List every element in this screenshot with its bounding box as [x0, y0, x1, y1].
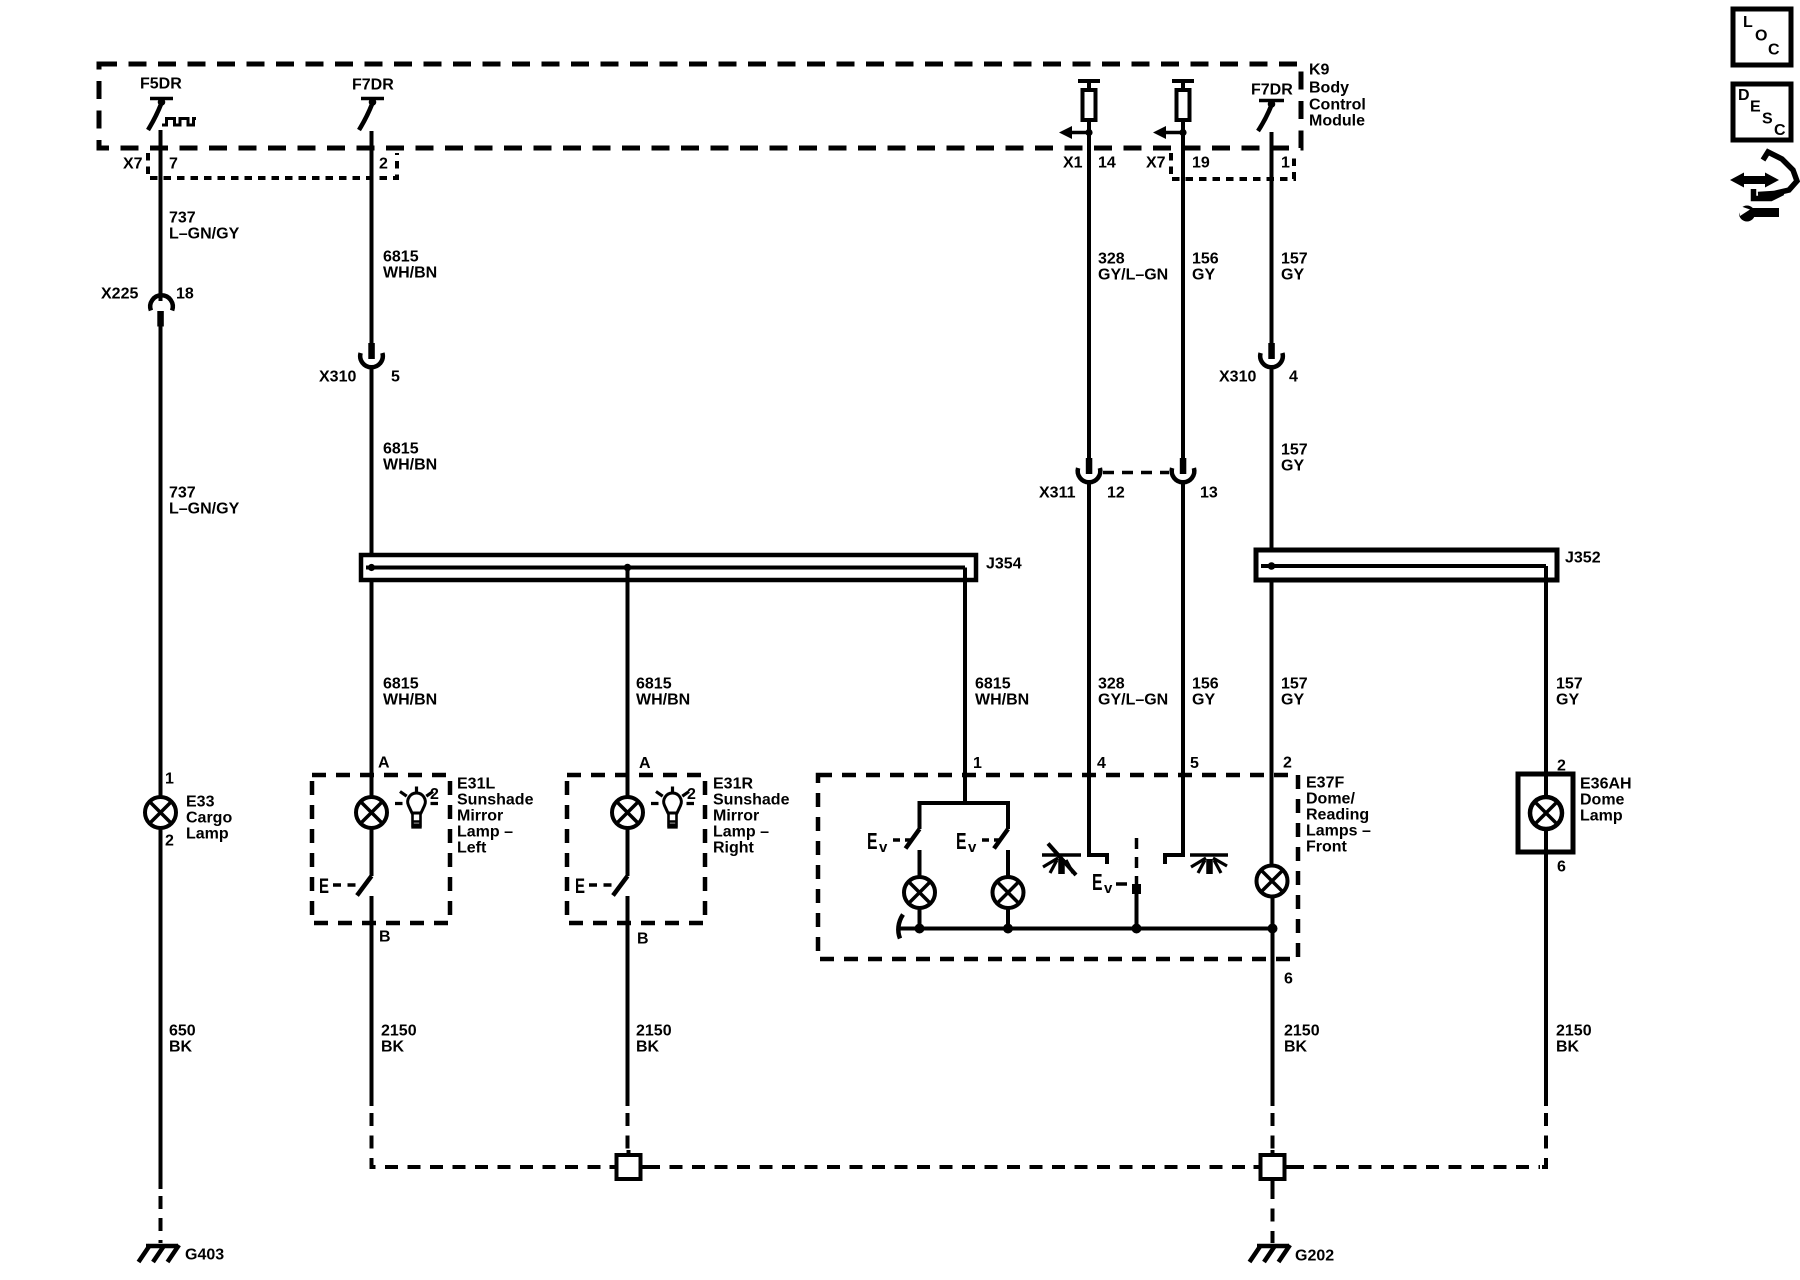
- dome lamp in E37F (pin 2): [1257, 866, 1288, 897]
- svg-text:2: 2: [379, 156, 388, 173]
- illumination symbol: [1190, 855, 1228, 874]
- svg-text:X311: X311: [1039, 485, 1076, 502]
- svg-text:Dome: Dome: [1580, 792, 1625, 809]
- svg-text:Sunshade: Sunshade: [457, 792, 534, 809]
- wire 157 from F7DR to X310 pin 4: [1270, 132, 1274, 345]
- svg-text:v: v: [879, 839, 888, 856]
- svg-text:WH/BN: WH/BN: [636, 692, 690, 709]
- svg-text:L–GN/GY: L–GN/GY: [169, 501, 240, 518]
- svg-text:Control: Control: [1309, 97, 1366, 114]
- inline connector X310 pin 5: [360, 343, 383, 367]
- svg-text:WH/BN: WH/BN: [383, 692, 437, 709]
- dashed connector link X311: [1103, 471, 1169, 475]
- svg-text:BK: BK: [1284, 1039, 1308, 1056]
- E37F reading switch right: [994, 829, 1008, 849]
- inline connector X311 pin 13: [1172, 458, 1195, 482]
- svg-text:X7: X7: [123, 156, 143, 173]
- solid-state driver output 1 (pin X1-14): [1059, 81, 1100, 139]
- LOC icon box: [1733, 9, 1791, 65]
- svg-text:X225: X225: [101, 286, 138, 303]
- svg-text:650: 650: [169, 1023, 196, 1040]
- inline connector X225 pin 18: [150, 295, 173, 326]
- svg-text:D: D: [1738, 87, 1750, 104]
- svg-text:14: 14: [1098, 155, 1116, 172]
- svg-text:1: 1: [165, 771, 174, 788]
- svg-text:6815: 6815: [383, 249, 419, 266]
- svg-text:Mirror: Mirror: [457, 808, 503, 825]
- svg-text:13: 13: [1200, 485, 1218, 502]
- svg-text:Body: Body: [1309, 80, 1349, 97]
- E37F reading lamp right: [993, 877, 1024, 908]
- svg-text:GY: GY: [1556, 692, 1579, 709]
- svg-text:Sunshade: Sunshade: [713, 792, 790, 809]
- svg-text:157: 157: [1281, 251, 1308, 268]
- dashed wire into G202 square: [1271, 1113, 1275, 1154]
- svg-text:19: 19: [1192, 155, 1210, 172]
- svg-text:2: 2: [430, 786, 439, 803]
- wire 157 from J352 to E36AH: [1544, 578, 1548, 774]
- wire 650 BK from E33 down: [159, 828, 163, 1189]
- light sensor symbol (slashed): [1042, 844, 1081, 876]
- svg-text:X1: X1: [1063, 155, 1083, 172]
- svg-text:2: 2: [1283, 755, 1292, 772]
- svg-text:WH/BN: WH/BN: [383, 265, 437, 282]
- K9 Body Control Module box: [99, 64, 1301, 148]
- wire 157 from J352 to E37F pin 2: [1270, 578, 1274, 866]
- svg-text:J354: J354: [986, 556, 1022, 573]
- svg-text:E: E: [956, 828, 967, 854]
- svg-text:Lamp: Lamp: [1580, 808, 1623, 825]
- E37F internal feed split: [920, 775, 1009, 829]
- service icon (arrows, car, wrench): [1730, 152, 1797, 222]
- wire 2150 BK from E36AH pin 6: [1544, 852, 1548, 1106]
- bulb icon E31L: [395, 787, 438, 828]
- ground G202: [1250, 1245, 1291, 1262]
- connector X7 right box (pins 19,1): [1171, 153, 1294, 179]
- DESC icon box: [1733, 84, 1791, 140]
- svg-text:B: B: [379, 929, 391, 946]
- svg-text:6815: 6815: [383, 441, 419, 458]
- svg-text:GY/L–GN: GY/L–GN: [1098, 692, 1168, 709]
- dome lamp E36AH box: [1518, 774, 1573, 852]
- inline connector X311 pin 12: [1078, 458, 1101, 482]
- E37F pin 4 terminal foot: [1089, 775, 1107, 864]
- svg-text:1: 1: [1281, 155, 1290, 172]
- svg-text:Left: Left: [457, 840, 487, 857]
- svg-text:E: E: [1750, 99, 1761, 116]
- svg-text:18: 18: [176, 286, 194, 303]
- svg-text:X7: X7: [1146, 155, 1166, 172]
- circuit breaker F5DR: [148, 98, 196, 130]
- switch in E31L: [333, 828, 372, 923]
- svg-text:WH/BN: WH/BN: [383, 457, 437, 474]
- svg-text:Lamp –: Lamp –: [713, 824, 769, 841]
- svg-text:2150: 2150: [1284, 1023, 1320, 1040]
- svg-text:E: E: [319, 875, 329, 898]
- svg-text:GY: GY: [1281, 458, 1304, 475]
- svg-text:O: O: [1755, 28, 1767, 45]
- E37F reading lamp left: [904, 877, 935, 908]
- svg-text:Right: Right: [713, 840, 755, 857]
- sunshade mirror lamp left E31L box: [312, 775, 450, 923]
- ground bus dashed right of G202 square: [1291, 1165, 1540, 1169]
- svg-text:BK: BK: [169, 1039, 193, 1056]
- svg-text:737: 737: [169, 210, 196, 227]
- svg-text:6: 6: [1284, 971, 1293, 988]
- svg-text:WH/BN: WH/BN: [975, 692, 1029, 709]
- svg-text:12: 12: [1107, 485, 1125, 502]
- svg-text:E37F: E37F: [1306, 775, 1344, 792]
- svg-text:2: 2: [1557, 758, 1566, 775]
- lamp E36AH: [1530, 774, 1562, 852]
- svg-text:157: 157: [1281, 676, 1308, 693]
- svg-text:Lamps –: Lamps –: [1306, 823, 1371, 840]
- svg-text:v: v: [968, 839, 977, 856]
- svg-text:4: 4: [1289, 369, 1298, 386]
- svg-text:6815: 6815: [636, 676, 672, 693]
- svg-text:J352: J352: [1565, 550, 1601, 567]
- svg-text:G403: G403: [185, 1247, 224, 1264]
- svg-text:5: 5: [1190, 755, 1199, 772]
- svg-text:2150: 2150: [636, 1023, 672, 1040]
- svg-text:F5DR: F5DR: [140, 76, 182, 93]
- svg-text:2: 2: [165, 833, 174, 850]
- svg-text:K9: K9: [1309, 62, 1330, 79]
- svg-text:Mirror: Mirror: [713, 808, 759, 825]
- wire 328 from X311 to E37F pin 4: [1087, 484, 1091, 775]
- wire 328 from driver 1 to X311 pin 12: [1087, 133, 1091, 460]
- wire 737 from X225 to E33: [159, 326, 163, 798]
- lamp E31R: [612, 797, 643, 828]
- connector X7 left box (pins 7,2): [148, 153, 397, 178]
- wire 6815 from F7DR to X310: [370, 131, 374, 345]
- ground bus dashed from square to G202 square: [647, 1165, 1254, 1169]
- svg-text:E36AH: E36AH: [1580, 776, 1632, 793]
- splice square at G202: [1261, 1155, 1285, 1179]
- sunshade mirror lamp right E31R box: [567, 775, 705, 923]
- svg-text:F7DR: F7DR: [1251, 82, 1293, 99]
- svg-text:Lamp: Lamp: [186, 826, 229, 843]
- svg-text:GY: GY: [1281, 267, 1304, 284]
- E37F reading switch left: [906, 829, 920, 849]
- dashed lead down to ground G202: [1271, 1186, 1275, 1243]
- svg-text:GY: GY: [1192, 267, 1215, 284]
- svg-text:Dome/: Dome/: [1306, 791, 1355, 808]
- svg-text:BK: BK: [636, 1039, 660, 1056]
- fuse/switch F7DR (right, pin 1): [1258, 100, 1284, 131]
- fuse/switch F7DR (left): [359, 98, 384, 130]
- wire 156 from driver 2 to X311 pin 13: [1181, 133, 1185, 460]
- svg-text:v: v: [1104, 880, 1113, 897]
- bulb icon E31R: [651, 787, 694, 828]
- svg-text:4: 4: [1097, 755, 1106, 772]
- svg-text:GY: GY: [1192, 692, 1215, 709]
- svg-text:E: E: [1092, 869, 1103, 895]
- svg-text:G202: G202: [1295, 1248, 1334, 1265]
- svg-text:5: 5: [391, 369, 400, 386]
- E37F dome switch actuator (dashed): [1116, 838, 1141, 929]
- svg-text:B: B: [637, 931, 649, 948]
- ground G403: [139, 1245, 180, 1262]
- svg-text:F7DR: F7DR: [352, 77, 394, 94]
- splice square at E31R/ground bus: [617, 1155, 641, 1179]
- wire from J354 to E31R pin A: [626, 568, 630, 798]
- dashed wire to ground bus (E31L): [372, 1113, 611, 1167]
- wire 156 from X311 to E37F pin 5: [1181, 484, 1185, 775]
- splice pack J354: [361, 555, 976, 580]
- dome/reading lamps front E37F box: [818, 775, 1298, 959]
- svg-text:328: 328: [1098, 676, 1125, 693]
- switch in E31R: [589, 828, 628, 923]
- svg-text:328: 328: [1098, 251, 1125, 268]
- svg-text:Module: Module: [1309, 113, 1365, 130]
- wire 737 from F5DR to X225: [159, 130, 163, 301]
- svg-text:E31R: E31R: [713, 776, 753, 793]
- solid-state driver output 2 (pin X7-19): [1153, 81, 1194, 139]
- svg-text:C: C: [1774, 122, 1786, 139]
- svg-text:GY/L–GN: GY/L–GN: [1098, 267, 1168, 284]
- svg-text:6815: 6815: [383, 676, 419, 693]
- svg-text:1: 1: [973, 755, 982, 772]
- svg-text:L–GN/GY: L–GN/GY: [169, 226, 240, 243]
- svg-text:X310: X310: [319, 369, 356, 386]
- svg-text:X310: X310: [1219, 369, 1256, 386]
- lamp E31L: [356, 797, 387, 828]
- svg-text:157: 157: [1556, 676, 1583, 693]
- svg-text:2150: 2150: [381, 1023, 417, 1040]
- svg-text:7: 7: [169, 156, 178, 173]
- svg-text:BK: BK: [381, 1039, 405, 1056]
- svg-text:6815: 6815: [975, 676, 1011, 693]
- svg-text:157: 157: [1281, 442, 1308, 459]
- wire 6815 from J354 to E37F pin 1: [963, 580, 967, 775]
- svg-text:Front: Front: [1306, 839, 1348, 856]
- svg-text:156: 156: [1192, 251, 1219, 268]
- splice pack J352: [1256, 550, 1557, 580]
- svg-text:C: C: [1768, 42, 1780, 59]
- inline connector X310 pin 4: [1260, 343, 1283, 367]
- splice square stubs (E31R): [610, 1150, 648, 1167]
- dashed wire into ground bus square (E31R): [626, 1113, 630, 1154]
- E37F ground bus: [898, 915, 1277, 939]
- svg-text:737: 737: [169, 485, 196, 502]
- dashed lead to ground G403: [159, 1196, 163, 1243]
- wire 2150 BK from E37F pin 6: [1271, 929, 1275, 1107]
- svg-text:E: E: [867, 828, 878, 854]
- wire 6815 from X310 to J354: [370, 369, 374, 557]
- wire 6815 from J354 to E31L pin A: [370, 578, 374, 798]
- svg-text:2150: 2150: [1556, 1023, 1592, 1040]
- svg-text:E31L: E31L: [457, 776, 495, 793]
- wire 2150 BK below E31R: [626, 923, 630, 1106]
- svg-text:156: 156: [1192, 676, 1219, 693]
- svg-text:6: 6: [1557, 859, 1566, 876]
- wire 157 from X310 to J352: [1270, 369, 1274, 552]
- E37F pin 5 terminal foot: [1165, 775, 1183, 864]
- svg-text:2: 2: [687, 786, 696, 803]
- svg-text:Cargo: Cargo: [186, 810, 232, 827]
- svg-text:BK: BK: [1556, 1039, 1580, 1056]
- svg-text:S: S: [1762, 111, 1773, 128]
- wire 2150 BK below E31L: [370, 923, 374, 1106]
- dashed wire down to ground bus corner: [1536, 1113, 1546, 1167]
- lamp E33 Cargo Lamp: [145, 797, 176, 828]
- svg-text:Lamp –: Lamp –: [457, 824, 513, 841]
- svg-text:A: A: [639, 755, 651, 772]
- svg-text:E: E: [575, 875, 585, 898]
- svg-text:E33: E33: [186, 794, 215, 811]
- svg-text:GY: GY: [1281, 692, 1304, 709]
- svg-text:L: L: [1743, 14, 1753, 31]
- svg-text:A: A: [378, 755, 390, 772]
- svg-text:Reading: Reading: [1306, 807, 1369, 824]
- splice square stubs (G202): [1254, 1150, 1292, 1186]
